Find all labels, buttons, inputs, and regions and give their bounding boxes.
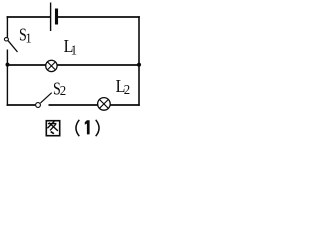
wire right vertical [138,16,140,106]
lamp L2 [98,98,111,111]
junction node right (middle wire meets right wire) [137,63,141,67]
svg-text:2: 2 [60,83,66,98]
label L2 [116,76,126,96]
switch S2 pivot circle [36,103,41,108]
lamp L1 [46,60,57,71]
caption glyph "图" (drawn strokes) [46,121,59,136]
switch S2 blade [40,93,51,103]
battery short thick plate [55,9,58,25]
svg-text:1: 1 [71,42,77,58]
caption digit 1 [85,120,90,134]
wire top horizontal right segment (battery right lead) [58,16,140,18]
wire left vertical upper (to switch S1) [6,16,8,37]
switch S1 blade [8,41,17,52]
svg-text:2: 2 [124,82,130,97]
wire bottom horizontal middle segment (switch S2 to lamp L2) [49,104,99,106]
switch S1 pivot circle [4,38,8,41]
caption "(" [76,120,79,136]
wire top horizontal left segment (battery left lead) [7,16,51,18]
battery long thin plate [50,3,52,32]
wire middle horizontal left of L1 [7,64,46,66]
junction node left (middle wire meets left wire) [6,63,10,67]
svg-text:1: 1 [25,30,31,46]
label S1 [19,26,27,45]
wire bottom horizontal right segment (lamp L2 to right wire) [110,104,140,106]
caption ")" [96,120,99,136]
wire middle horizontal right of L1 [57,64,139,66]
wire left vertical lower [6,50,8,106]
label S2 [53,80,61,99]
wire bottom horizontal left segment (to switch S2) [7,104,36,106]
label L1 [64,36,74,56]
